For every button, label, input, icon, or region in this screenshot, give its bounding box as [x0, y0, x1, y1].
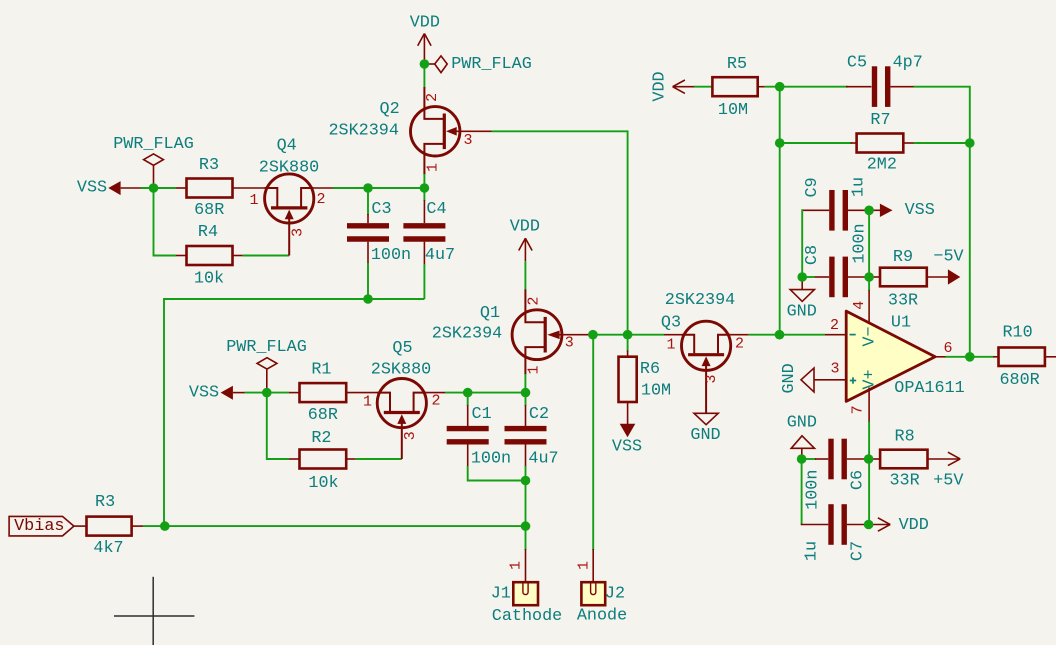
wire R5 to C5	[765, 86, 848, 88]
svg-text:VSS: VSS	[77, 179, 107, 198]
svg-text:Anode: Anode	[577, 607, 627, 626]
svg-text:R3: R3	[95, 493, 115, 512]
wire op-amp output to R10	[945, 356, 994, 358]
transistor Q3 2SK2394	[661, 291, 749, 413]
transistor Q5 2SK880	[363, 339, 445, 459]
resistor R8 (33R)	[869, 428, 959, 491]
svg-text:2SK2394: 2SK2394	[432, 325, 503, 344]
wire node to R2	[267, 393, 289, 459]
junction: C3 top node	[363, 183, 373, 193]
svg-text:C8: C8	[803, 245, 822, 265]
power symbol VSS (below R6)	[612, 424, 642, 457]
ground GND (below C8 left)	[787, 277, 817, 322]
transistor Q2 2SK2394	[328, 87, 491, 175]
svg-text:10k: 10k	[308, 474, 338, 493]
wire C9/C8 right column	[868, 210, 870, 290]
resistor R2 (10k)	[289, 429, 356, 493]
resistor R7 (2M2)	[851, 111, 915, 174]
resistor R3 (4k7)	[74, 493, 143, 558]
svg-text:1: 1	[363, 394, 372, 411]
junction: VDD / PWR_FLAG node	[420, 59, 430, 69]
power symbol +5V	[933, 452, 963, 490]
power symbol VSS (right of C9)	[869, 201, 935, 220]
svg-text:V+: V+	[860, 369, 879, 389]
svg-text:3: 3	[289, 228, 306, 237]
junction: Q1 gate node	[588, 330, 598, 340]
wire R7 to right column	[914, 142, 970, 144]
junction: C8/GND node	[797, 272, 807, 282]
power symbol VSS (left of R1)	[189, 383, 245, 402]
svg-text:100n: 100n	[471, 450, 511, 469]
svg-text:C4: C4	[426, 200, 446, 219]
svg-text:33R: 33R	[888, 291, 918, 310]
wire VDD node to Q2 drain	[423, 64, 425, 88]
svg-text:4k7: 4k7	[93, 539, 123, 558]
junction: C1/C2 bottom node	[521, 476, 531, 486]
power flag PWR_FLAG (upper left)	[113, 135, 194, 188]
svg-text:VDD: VDD	[651, 71, 670, 101]
junction: J1 node	[521, 521, 531, 531]
svg-text:VDD: VDD	[899, 516, 929, 535]
svg-text:2: 2	[431, 393, 440, 410]
capacitor C8 (100n)	[802, 223, 869, 297]
svg-text:R3: R3	[199, 156, 219, 175]
wire C9 left to C8 node	[801, 209, 803, 277]
junction: Vbias node	[160, 521, 170, 531]
connector J2 (Anode)	[576, 549, 627, 626]
junction: C9/VSS node	[864, 206, 874, 216]
svg-text:2: 2	[830, 317, 839, 334]
svg-text:3: 3	[703, 374, 720, 383]
svg-text:R9: R9	[893, 248, 913, 267]
transistor Q4 2SK880	[249, 137, 333, 256]
svg-text:10M: 10M	[718, 101, 748, 120]
svg-text:10M: 10M	[641, 381, 671, 400]
capacitor C2 (4u7)	[505, 393, 559, 469]
capacitor C7 (1u)	[801, 504, 869, 561]
svg-text:2: 2	[316, 191, 325, 208]
svg-text:100n: 100n	[803, 470, 822, 510]
power symbol VSS (left of R3)	[77, 179, 142, 198]
svg-text:2SK2394: 2SK2394	[665, 291, 736, 310]
wire R7 row left	[780, 142, 852, 144]
power flag PWR_FLAG (lower)	[226, 338, 307, 393]
svg-text:1: 1	[666, 337, 675, 354]
svg-text:GND: GND	[780, 363, 799, 393]
svg-text:6: 6	[943, 340, 952, 357]
svg-text:PWR_FLAG: PWR_FLAG	[113, 135, 194, 154]
resistor R4 (10k)	[176, 223, 243, 288]
junction: Q2 source / C4 node	[420, 183, 430, 193]
wire Q1 gate / main signal row	[589, 334, 664, 336]
svg-text:OPA1611: OPA1611	[894, 379, 965, 398]
svg-text:Q5: Q5	[392, 339, 412, 358]
wire R4 to Q4 gate	[243, 255, 290, 257]
svg-text:V−: V−	[860, 326, 879, 346]
junction: C7/VDD node	[864, 520, 874, 530]
capacitor C1 (100n)	[447, 393, 511, 469]
wire Q4 drain row to C3/C4/Q2	[333, 187, 424, 189]
junction: C6/GND node	[797, 454, 807, 464]
wire Q5 drain row to C1/C2	[445, 392, 526, 394]
svg-text:2: 2	[424, 93, 441, 102]
svg-text:GND: GND	[787, 413, 817, 432]
junction: R7 right node	[965, 138, 975, 148]
capacitor C5 (4p7)	[846, 54, 923, 107]
wire VDD to R5	[694, 86, 712, 88]
svg-text:2SK880: 2SK880	[371, 361, 431, 380]
svg-text:Q1: Q1	[480, 304, 500, 323]
svg-text:Q3: Q3	[661, 314, 681, 333]
svg-text:R10: R10	[1002, 324, 1032, 343]
svg-text:R4: R4	[198, 223, 218, 242]
svg-text:1: 1	[508, 561, 525, 570]
svg-text:VSS: VSS	[905, 201, 935, 220]
capacitor C9 (1u)	[802, 177, 869, 231]
svg-text:J2: J2	[605, 585, 625, 604]
capacitor C3 (100n)	[347, 188, 411, 299]
ground GND (left of op-amp pin 3)	[780, 363, 814, 393]
svg-text:4u7: 4u7	[528, 450, 558, 469]
ground GND (above C6)	[787, 413, 817, 459]
svg-text:Vbias: Vbias	[14, 517, 64, 536]
svg-text:Q2: Q2	[380, 100, 400, 119]
svg-text:4u7: 4u7	[425, 246, 455, 265]
resistor R9 (33R)	[869, 248, 948, 311]
op-amp U1 OPA1611	[814, 290, 965, 423]
svg-text:100n: 100n	[371, 246, 411, 265]
svg-text:1: 1	[576, 561, 593, 570]
junction: VSS/R1/R2 node	[262, 388, 272, 398]
svg-text:1: 1	[425, 163, 442, 172]
junction: C6/R8/pin7 node	[864, 454, 874, 464]
resistor R10 (680R)	[993, 324, 1056, 390]
svg-text:4p7: 4p7	[893, 54, 923, 73]
svg-text:J1: J1	[491, 585, 511, 604]
origin marker cross	[114, 577, 194, 645]
wire left feedback column	[779, 87, 781, 335]
wire Q1 source to C2 node	[524, 374, 526, 393]
svg-text:3: 3	[830, 361, 839, 378]
junction: VSS/R3/R4 node	[149, 183, 159, 193]
svg-text:3: 3	[402, 431, 419, 440]
transistor Q1 2SK2394	[432, 289, 589, 374]
power symbol VDD (top)	[410, 14, 440, 65]
svg-text:4: 4	[851, 301, 868, 310]
svg-text:PWR_FLAG: PWR_FLAG	[451, 55, 532, 74]
svg-text:VSS: VSS	[189, 383, 219, 402]
wire C5 to right column	[914, 87, 970, 357]
junction: op-amp inverting input node	[775, 330, 785, 340]
svg-text:VDD: VDD	[410, 14, 440, 33]
junction: Q1 source / C2 node	[521, 388, 531, 398]
capacitor C4 (4u7)	[403, 188, 455, 299]
svg-text:R6: R6	[640, 360, 660, 379]
svg-text:33R: 33R	[889, 472, 919, 491]
svg-text:Q4: Q4	[277, 137, 297, 156]
svg-text:C1: C1	[472, 405, 492, 424]
svg-text:R7: R7	[870, 111, 890, 130]
wire op-amp pin7 to C6 node	[868, 422, 870, 525]
wire VSS to R3 node	[141, 187, 176, 189]
junction: C3 bottom node	[363, 294, 373, 304]
svg-text:2: 2	[526, 296, 543, 305]
svg-text:3: 3	[463, 132, 472, 149]
power symbol VDD (left of R5)	[651, 71, 696, 101]
svg-text:C7: C7	[848, 541, 867, 561]
junction: R7 left node	[775, 138, 785, 148]
wire R2 to Q5 gate	[356, 458, 402, 460]
wire node to R4	[154, 188, 177, 256]
resistor R5 (10M)	[712, 55, 764, 120]
svg-text:+5V: +5V	[933, 472, 963, 491]
wire Q3 drain to op-amp input node	[749, 334, 825, 336]
wire J2 column	[592, 335, 594, 550]
resistor R6 (10M)	[619, 335, 672, 424]
junction: C1 top node	[463, 388, 473, 398]
svg-text:10k: 10k	[194, 269, 224, 288]
svg-text:R1: R1	[311, 361, 331, 380]
wire Q2 source to row A	[423, 174, 425, 188]
junction: C8/R9/pin4 node	[864, 272, 874, 282]
svg-text:R5: R5	[727, 55, 747, 74]
capacitor C6 (100n)	[802, 439, 869, 510]
svg-text:VDD: VDD	[510, 218, 540, 237]
power symbol VDD (above Q1)	[510, 218, 540, 262]
svg-text:68R: 68R	[194, 201, 224, 220]
wire VSS to R1 node	[245, 392, 290, 394]
svg-text:C3: C3	[371, 200, 391, 219]
resistor R1 (68R)	[289, 361, 378, 425]
wire C2 bottom to Vbias row and J1	[525, 466, 527, 550]
power flag PWR_FLAG (top)	[424, 55, 531, 74]
svg-text:GND: GND	[787, 303, 817, 322]
svg-text:C5: C5	[847, 54, 867, 73]
global label Vbias	[9, 516, 74, 536]
svg-text:2SK2394: 2SK2394	[328, 122, 399, 141]
power symbol -5V	[933, 247, 963, 284]
wire VDD to Q1 drain	[524, 261, 526, 290]
svg-text:68R: 68R	[308, 406, 338, 425]
svg-text:7: 7	[850, 405, 867, 414]
svg-text:1: 1	[526, 365, 543, 374]
power symbol VDD (right of C7)	[869, 516, 929, 535]
wire C1 bottom to C2 column	[468, 466, 526, 481]
svg-text:1u: 1u	[850, 177, 869, 197]
svg-text:R8: R8	[895, 428, 915, 447]
wire Q2 gate to main row	[492, 131, 628, 334]
junction: output node	[965, 352, 975, 362]
svg-text:C2: C2	[529, 405, 549, 424]
wire C6/C7 left column	[801, 459, 803, 525]
wire Vbias row	[143, 525, 526, 527]
wire C3/C4 bottom to Vbias column	[164, 299, 424, 526]
svg-text:R2: R2	[311, 429, 331, 448]
svg-text:−5V: −5V	[933, 247, 963, 266]
ground GND (below Q3)	[690, 413, 720, 445]
svg-text:Cathode: Cathode	[492, 607, 563, 626]
svg-text:3: 3	[565, 335, 574, 352]
svg-text:680R: 680R	[999, 371, 1039, 390]
svg-text:2M2: 2M2	[867, 156, 897, 175]
resistor R3 (68R)	[176, 156, 266, 220]
svg-text:GND: GND	[690, 426, 720, 445]
svg-text:2: 2	[735, 336, 744, 353]
junction: R5/C5 node	[775, 82, 785, 92]
svg-text:VSS: VSS	[612, 438, 642, 457]
svg-text:U1: U1	[891, 314, 911, 333]
connector J1 (Cathode)	[491, 549, 563, 626]
junction: R6 node	[623, 330, 633, 340]
svg-text:100n: 100n	[851, 223, 870, 263]
svg-text:1u: 1u	[802, 541, 821, 561]
svg-text:1: 1	[249, 192, 258, 209]
svg-text:C9: C9	[803, 177, 822, 197]
svg-text:C6: C6	[848, 470, 867, 490]
svg-text:PWR_FLAG: PWR_FLAG	[226, 338, 307, 357]
